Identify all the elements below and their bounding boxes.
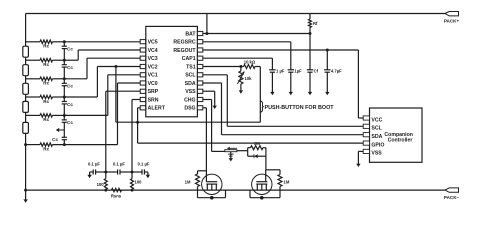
resistor 1M CHG gate xyxy=(248,147,251,149)
junction BAT at top-rail drop xyxy=(205,32,208,35)
wire between cell 2 and cell 3 xyxy=(25,76,27,84)
wire bottom tap to VC0 jog xyxy=(53,144,118,146)
wire Cc column xyxy=(63,42,65,46)
zener protection on CHG drive xyxy=(225,150,237,152)
wire battery stack top from rail down to cell 1 xyxy=(25,14,27,47)
wire CHG pin right xyxy=(203,99,212,101)
svg-text:CAP1: CAP1 xyxy=(182,56,196,62)
junction push-button tap on VC2 row xyxy=(114,65,117,68)
wire ALERT pin to vertical xyxy=(138,107,141,109)
svg-text:100: 100 xyxy=(97,182,105,187)
junction Rsns left xyxy=(104,189,107,192)
arrow 0.1uF left to ground xyxy=(89,172,91,175)
wire cell tap 1 from stack to Rc xyxy=(26,41,40,43)
svg-text:0.1 µF: 0.1 µF xyxy=(88,162,100,167)
transistor Q2 CHG FET xyxy=(252,174,272,194)
companion pin stub SCL xyxy=(363,124,369,128)
svg-text:BAT: BAT xyxy=(185,31,196,37)
resistor 10 kOhm xyxy=(241,66,244,68)
wire 4.7µF to ground arrow xyxy=(326,72,328,92)
svg-text:Rsns: Rsns xyxy=(111,193,122,198)
resistor 100 left xyxy=(105,172,107,179)
svg-text:10 kΩ: 10 kΩ xyxy=(244,59,256,64)
battery cell 3 xyxy=(23,83,29,94)
svg-text:VC2: VC2 xyxy=(148,64,158,70)
svg-text:0.1 µF: 0.1 µF xyxy=(138,162,150,167)
junction Cc column bottom xyxy=(63,143,66,146)
transistor Q1 DSG FET xyxy=(202,174,222,194)
svg-text:Cf: Cf xyxy=(314,69,319,74)
arrow thermistor to ground xyxy=(240,84,242,91)
resistor Rc (tap 3) xyxy=(40,77,53,80)
svg-text:Rc: Rc xyxy=(43,146,49,151)
companion pin stub VSS xyxy=(363,149,369,153)
wire jog vertical tap 3 to VC3 xyxy=(86,58,88,79)
wire SRP pin to vertical xyxy=(106,90,140,92)
svg-text:SCL: SCL xyxy=(371,126,382,132)
svg-text:VC5: VC5 xyxy=(148,40,158,46)
pin stub SRP xyxy=(140,89,145,93)
wire 1 µF to ground arrow xyxy=(271,72,273,92)
pin stub CAP1 xyxy=(197,56,202,60)
net arrow on Cc column xyxy=(59,129,65,131)
wire tap 3 to jog xyxy=(64,78,87,80)
push-button brace symbol xyxy=(260,101,264,113)
svg-text:SRN: SRN xyxy=(148,97,159,103)
capacitor Cc 4 xyxy=(62,101,67,103)
capacitor 0.1uF middle xyxy=(106,171,118,173)
resistor 100 right xyxy=(131,172,133,179)
wire VC2 into pin xyxy=(97,66,140,68)
junction SRP at filter xyxy=(104,171,107,174)
pin stub REGOUT xyxy=(197,48,202,52)
wire push-button vertical xyxy=(259,67,261,123)
resistor Rc (tap 1) xyxy=(40,40,53,44)
wire TS1 to thermistor node xyxy=(203,66,241,68)
svg-text:DSG: DSG xyxy=(184,106,195,112)
battery cell 1 xyxy=(23,46,29,57)
wire cell tap 2 from stack to Rc xyxy=(26,59,40,61)
svg-text:1 µF: 1 µF xyxy=(276,69,285,74)
junction Rsns right xyxy=(131,189,134,192)
junction TS1 node xyxy=(239,65,242,68)
pin stub VC1 xyxy=(140,73,145,77)
arrow CHG network to ground xyxy=(230,152,232,159)
svg-text:VSS: VSS xyxy=(185,89,196,95)
arrow companion VSS to ground xyxy=(357,151,359,163)
connector PACK+ terminal tag xyxy=(445,12,459,16)
pin stub VC2 xyxy=(140,64,145,68)
junction SRN at filter xyxy=(131,171,134,174)
junction REGOUT at 4.7uF xyxy=(326,49,329,52)
junction BAT node xyxy=(309,32,312,35)
junction bottom tap at stack xyxy=(24,143,27,146)
wire tap 2 to Cc column xyxy=(53,59,65,61)
resistor Rf xyxy=(309,14,311,20)
svg-text:Rf: Rf xyxy=(313,21,318,26)
wire jog vertical tap 5 to VC1 xyxy=(107,75,109,116)
wire tap 4 to jog xyxy=(64,96,97,98)
battery cell 4 xyxy=(23,101,29,112)
wire CHG to protection network xyxy=(212,150,225,152)
capacitor Cc 6 xyxy=(62,136,67,138)
svg-text:REGOUT: REGOUT xyxy=(173,48,196,54)
svg-text:Cc: Cc xyxy=(67,84,73,89)
resistor 1M CHG gate-source xyxy=(279,170,281,175)
wire REGOUT down to 4.7uF xyxy=(326,50,328,70)
svg-text:VSS: VSS xyxy=(371,151,382,157)
junction Cc column tap 5 xyxy=(63,114,66,117)
capacitor 1 µF xyxy=(269,69,275,71)
battery cell 2 xyxy=(23,65,29,76)
wire CHG network to gate resistor xyxy=(237,150,248,152)
wire CHG vertical down xyxy=(211,100,213,152)
svg-text:VCC: VCC xyxy=(371,117,382,123)
wire 1µF to ground arrow xyxy=(290,72,292,92)
wire CAP1 to cap xyxy=(203,57,273,59)
wire push-button tap from VC2 row xyxy=(115,67,117,123)
wire BAT pin to Rf junction xyxy=(203,33,310,35)
svg-text:4.7µF: 4.7µF xyxy=(331,69,342,74)
connector PACK- terminal tag xyxy=(445,188,459,192)
capacitor 0.1uF left xyxy=(90,171,94,173)
wire battery stack bottom to ground rail xyxy=(25,133,27,190)
svg-text:Cc: Cc xyxy=(67,47,73,52)
svg-text:SDA: SDA xyxy=(185,81,196,87)
wire SCL to companion xyxy=(203,74,227,76)
wire SDA to companion xyxy=(203,82,222,84)
wire gate network right vertical xyxy=(265,148,267,170)
svg-text:10k: 10k xyxy=(245,76,253,81)
wire tap 3 to Cc column xyxy=(53,78,65,80)
wire cell tap 5 from stack to Rc xyxy=(26,114,40,116)
IC U2 Companion Controller body xyxy=(370,108,423,162)
wire CHG FET gate node xyxy=(266,169,280,171)
svg-text:Rc: Rc xyxy=(43,81,49,86)
wire bottom rail xyxy=(26,189,445,191)
pin stub CHG xyxy=(197,97,202,101)
capacitor Cc 5 xyxy=(62,119,67,121)
svg-text:Cc: Cc xyxy=(52,137,58,142)
pin stub DSG xyxy=(197,106,202,110)
wire between cell 3 and cell 4 xyxy=(25,94,27,101)
wire tap 2 to jog xyxy=(64,59,78,61)
svg-text:100: 100 xyxy=(135,180,143,185)
wire jog vertical tap 2 to VC4 xyxy=(77,50,79,60)
wire ALERT to companion GPIO xyxy=(138,142,364,144)
wire VC1 into pin xyxy=(108,74,140,76)
wire tap 5 to jog xyxy=(64,114,108,116)
pin stub SRN xyxy=(140,97,145,101)
svg-text:1M: 1M xyxy=(185,180,191,185)
wire cell tap 3 from stack to Rc xyxy=(26,78,40,80)
wire cell tap 4 from stack to Rc xyxy=(26,96,40,98)
pin stub ALERT xyxy=(140,106,145,110)
wire bottom tap from stack xyxy=(26,144,40,146)
pin stub VC5 xyxy=(140,40,145,44)
wire VC5 straight to pin xyxy=(64,41,140,43)
wire top rail from battery positive to PACK+ xyxy=(26,13,445,15)
wire between cell 1 and cell 2 xyxy=(25,57,27,64)
svg-text:VC0: VC0 xyxy=(148,81,158,87)
svg-text:VC1: VC1 xyxy=(148,73,158,79)
wire VC4 into pin xyxy=(78,49,140,51)
svg-text:PACK–: PACK– xyxy=(444,195,460,200)
arrow 0.1uF right to ground xyxy=(147,172,149,175)
body diode loop Q2 xyxy=(249,190,251,198)
wire VC0 into pin xyxy=(118,82,141,84)
resistor Rc (tap 4) xyxy=(40,95,53,98)
svg-text:TS1: TS1 xyxy=(186,64,196,70)
svg-text:Cc: Cc xyxy=(67,120,73,125)
wire SRP vertical down to sense filter xyxy=(105,91,107,172)
svg-text:Rc: Rc xyxy=(43,44,49,49)
resistor Rc (tap 2) xyxy=(40,59,53,62)
junction Cc column tap 2 xyxy=(63,59,66,62)
svg-text:1M: 1M xyxy=(284,180,290,185)
junction Cc column tap 1 xyxy=(63,40,66,43)
resistor Rc (bottom tap) xyxy=(40,143,53,146)
junction Cc column tap 4 xyxy=(63,96,66,99)
wire Rf to BAT junction xyxy=(309,28,311,34)
svg-text:GPIO: GPIO xyxy=(371,142,384,148)
svg-text:Controller: Controller xyxy=(388,137,413,143)
svg-text:Rc: Rc xyxy=(43,117,49,122)
wire VC3 into pin xyxy=(87,57,140,59)
pin stub VC3 xyxy=(140,56,145,60)
wire companion VSS to ground xyxy=(358,150,363,152)
svg-text:SRP: SRP xyxy=(148,89,159,95)
resistor Rsns xyxy=(112,188,122,191)
pin stub VC4 xyxy=(140,48,145,52)
capacitor Cc 3 xyxy=(62,82,67,84)
wire DSG vertical to FET gate xyxy=(205,108,207,182)
IC U1 BQ76905 body xyxy=(146,26,198,116)
wire REGOUT to companion VCC xyxy=(203,49,359,51)
junction ALERT and push-button wire xyxy=(136,121,139,124)
pin stub REGSRC xyxy=(197,40,202,44)
wire tap 5 to Cc column xyxy=(53,114,65,116)
wire tap 1 to Cc column xyxy=(53,41,65,43)
junction battery negative at bottom rail xyxy=(24,189,27,192)
companion pin stub GPIO xyxy=(363,141,369,145)
thermistor 10k xyxy=(240,67,242,72)
svg-text:ALERT: ALERT xyxy=(148,106,166,112)
capacitor 0.1uF right xyxy=(132,171,142,173)
resistor 1M DSG gate-source xyxy=(198,170,207,172)
wire gate network left vertical xyxy=(247,148,249,157)
pin stub SCL xyxy=(197,73,202,77)
junction Cc column tap 3 xyxy=(63,77,66,80)
svg-text:PACK+: PACK+ xyxy=(444,19,460,24)
svg-text:Rc: Rc xyxy=(43,62,49,67)
pin stub SDA xyxy=(197,81,202,85)
capacitor Cc 1 xyxy=(62,45,67,47)
svg-text:CHG: CHG xyxy=(184,97,196,103)
svg-text:REGSRC: REGSRC xyxy=(173,40,195,46)
svg-text:Cc: Cc xyxy=(67,102,73,107)
svg-text:Cc: Cc xyxy=(67,65,73,70)
wire SRN vertical down to sense filter xyxy=(131,100,133,173)
wire VC0 jog vertical xyxy=(117,83,119,145)
diode CHG gate xyxy=(248,155,254,157)
svg-text:PUSH-BUTTON FOR BOOT: PUSH-BUTTON FOR BOOT xyxy=(265,105,335,111)
svg-text:Rc: Rc xyxy=(43,99,49,104)
pin stub VC0 xyxy=(140,81,145,85)
wire SRN pin to vertical xyxy=(132,99,140,101)
svg-text:0.1 µF: 0.1 µF xyxy=(113,162,125,167)
companion pin stub VCC xyxy=(363,116,369,120)
wire between cell 4 and cell 5 xyxy=(25,112,27,122)
svg-text:SDA: SDA xyxy=(371,134,382,140)
svg-text:VC4: VC4 xyxy=(148,48,158,54)
pin stub VSS xyxy=(197,89,202,93)
pin stub TS1 xyxy=(197,64,202,68)
capacitor Cc 2 xyxy=(62,64,67,66)
pin stub BAT xyxy=(197,31,202,35)
companion pin stub SDA xyxy=(363,133,369,137)
wire DSG pin right xyxy=(203,107,207,109)
svg-text:1µF: 1µF xyxy=(294,69,302,74)
wire REGSRC to cap xyxy=(203,41,291,43)
wire ALERT vertical down xyxy=(137,108,139,143)
battery cell 5 xyxy=(23,122,29,133)
body diode loop Q1 xyxy=(197,190,199,198)
svg-text:VC3: VC3 xyxy=(148,56,158,62)
svg-text:SCL: SCL xyxy=(185,73,196,79)
resistor Rc (tap 5) xyxy=(40,114,53,117)
wire push-button bottom horizontal xyxy=(116,121,260,123)
ground arrow at battery negative xyxy=(25,190,27,200)
capacitor 1µF xyxy=(288,69,294,71)
wire tap 4 to Cc column xyxy=(53,96,65,98)
capacitor 4.7µF xyxy=(324,69,330,71)
capacitor Cf xyxy=(307,69,313,71)
wire Cf to ground arrow xyxy=(309,72,311,92)
wire VSS pin to ground xyxy=(203,90,215,92)
wire jog vertical tap 4 to VC2 xyxy=(96,67,98,98)
wire top rail to BAT pin xyxy=(206,14,208,34)
svg-text:1M: 1M xyxy=(254,141,260,146)
arrow VSS to ground xyxy=(214,98,216,106)
wire BAT node down to Cf xyxy=(309,34,311,70)
